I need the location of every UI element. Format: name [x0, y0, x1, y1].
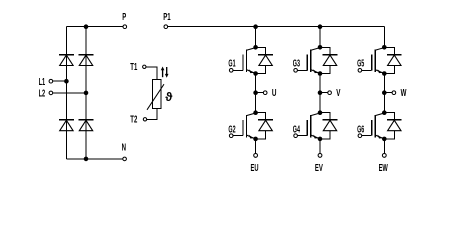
junction L1	[64, 79, 69, 84]
wire diode of G3 to emitter	[320, 66, 330, 74]
diode D4	[79, 120, 94, 131]
svg-text:ϑ: ϑ	[165, 90, 173, 104]
wire L2 to right leg	[53, 92, 86, 94]
wire rail to G3	[319, 27, 321, 48]
wire node U to terminal	[256, 92, 264, 94]
terminal V	[328, 91, 332, 95]
terminal N	[123, 157, 127, 161]
terminal T2	[143, 118, 146, 121]
junction collector G2	[253, 110, 258, 115]
transistor G2	[233, 113, 256, 139]
junction bridge bottom	[84, 157, 89, 162]
wire P1 rail	[168, 26, 385, 28]
transistor G3	[297, 48, 320, 74]
junction collector G1	[253, 45, 258, 50]
svg-text:P: P	[122, 12, 126, 23]
junction bridge top	[84, 24, 89, 29]
wire node V to G4	[319, 93, 321, 113]
wire to diode of G6	[384, 113, 394, 120]
wire thermistor to T2	[147, 109, 157, 120]
svg-text:EW: EW	[379, 163, 389, 174]
junction emitter G1	[253, 71, 258, 76]
diode of G1	[258, 55, 273, 66]
junction node V	[318, 90, 323, 95]
terminal gate G6	[358, 134, 362, 138]
junction node U	[253, 90, 258, 95]
wire to diode of G1	[256, 47, 266, 54]
wire emitter G1 to node U	[255, 74, 257, 93]
junction collector G6	[382, 110, 387, 115]
svg-text:W: W	[401, 88, 407, 99]
terminal gate G1	[229, 69, 233, 73]
wire top rail of bridge to P	[66, 26, 123, 28]
wire diode of G2 to emitter	[256, 131, 266, 139]
wire emitter G3 to node V	[319, 74, 321, 93]
wire node U to G2	[255, 93, 257, 113]
terminal gate G4	[294, 134, 298, 138]
diode D3	[59, 120, 74, 131]
svg-text:G3: G3	[293, 59, 300, 70]
svg-text:U: U	[272, 88, 277, 99]
wire node W to terminal	[384, 92, 392, 94]
terminal P	[123, 25, 127, 29]
transistor G6	[362, 113, 385, 139]
wire to diode of G2	[256, 113, 266, 120]
wire emitter G6 to EW	[383, 139, 385, 154]
wire bridge left leg	[65, 27, 67, 159]
wire node V to terminal	[320, 92, 328, 94]
diode D2	[79, 55, 94, 66]
svg-text:T1: T1	[130, 62, 137, 73]
wire to diode of G5	[384, 47, 394, 54]
terminal EU	[254, 154, 258, 158]
svg-text:N: N	[122, 143, 126, 154]
junction collector G5	[382, 45, 387, 50]
junction L2	[84, 91, 89, 96]
junction collector G3	[318, 45, 323, 50]
wire to diode of G4	[320, 113, 330, 120]
terminal L1	[49, 79, 53, 83]
terminal gate G2	[229, 134, 233, 138]
diode of G5	[387, 55, 402, 66]
variability arrows	[161, 67, 169, 78]
wire L1 to left leg	[53, 80, 67, 82]
wire diode of G4 to emitter	[320, 131, 330, 139]
svg-text:EU: EU	[251, 163, 259, 174]
terminal gate G5	[358, 69, 362, 73]
terminal U	[263, 91, 267, 95]
wire emitter G4 to EV	[319, 139, 321, 154]
wire diode of G1 to emitter	[256, 66, 266, 74]
junction rail leg1	[253, 24, 258, 29]
transistor G4	[297, 113, 320, 139]
wire node W to G6	[383, 93, 385, 113]
thermistor R1 body	[152, 79, 161, 108]
svg-text:G1: G1	[228, 59, 235, 70]
terminal P1	[164, 25, 168, 29]
junction emitter G2	[253, 137, 258, 142]
terminal EV	[318, 154, 322, 158]
wire emitter G5 to node W	[383, 74, 385, 93]
svg-text:P1: P1	[163, 12, 171, 23]
wire rail to G1	[255, 27, 257, 48]
diode D1	[59, 55, 74, 66]
diode of G2	[258, 120, 273, 131]
wire T1 to thermistor	[146, 67, 157, 80]
svg-text:V: V	[336, 88, 340, 99]
svg-text:L1: L1	[39, 77, 46, 88]
terminal L2	[49, 91, 53, 95]
junction emitter G3	[318, 71, 323, 76]
svg-text:EV: EV	[315, 163, 323, 174]
diode of G4	[323, 120, 338, 131]
junction emitter G6	[382, 137, 387, 142]
svg-text:T2: T2	[130, 115, 137, 126]
junction emitter G5	[382, 71, 387, 76]
junction node W	[382, 90, 387, 95]
terminal W	[392, 91, 396, 95]
diode of G6	[387, 120, 402, 131]
terminal EW	[382, 154, 386, 158]
terminal gate G3	[294, 69, 298, 73]
wire bridge right leg	[85, 27, 87, 159]
terminal T1	[143, 65, 146, 68]
wire bottom rail of bridge to N	[66, 158, 122, 160]
wire emitter G2 to EU	[255, 139, 257, 154]
transistor G1	[233, 48, 256, 74]
wire to diode of G3	[320, 47, 330, 54]
wire diode of G6 to emitter	[384, 131, 394, 139]
junction collector G4	[318, 110, 323, 115]
junction emitter G4	[318, 137, 323, 142]
wire rail corner down to leg3	[383, 27, 385, 48]
transistor G5	[362, 48, 385, 74]
diode of G3	[323, 55, 338, 66]
junction rail leg2	[318, 24, 323, 29]
svg-text:L2: L2	[39, 89, 46, 100]
wire diode of G5 to emitter	[384, 66, 394, 74]
thermistor R1 diagonal	[147, 84, 164, 110]
svg-text:G5: G5	[357, 59, 364, 70]
